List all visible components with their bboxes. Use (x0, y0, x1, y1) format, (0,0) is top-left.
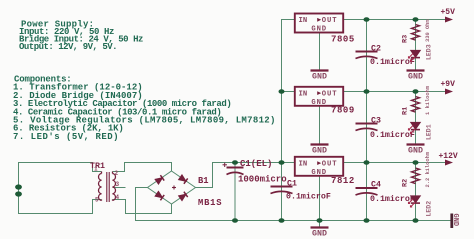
LED3 (409, 51, 421, 62)
capacitor C4 (356, 188, 378, 195)
wire input loop left vertical (18, 163, 20, 214)
wire 7809 output to +9V (343, 91, 445, 93)
junction C2 top (364, 17, 370, 22)
svg-text:LED3: LED3 (426, 44, 433, 60)
svg-text:C4: C4 (371, 181, 381, 190)
capacitor C1(EL) plus mark (223, 163, 228, 167)
wire input loop bottom (18, 200, 102, 214)
svg-text:GND: GND (311, 26, 327, 34)
junction bus LED2 (413, 218, 419, 223)
svg-text:1: 1 (94, 166, 98, 173)
junction bus 7812 gnd (317, 218, 323, 223)
svg-text:IN: IN (299, 17, 308, 25)
wire input loop top (18, 163, 102, 172)
svg-text:1 kiloohm: 1 kiloohm (425, 85, 431, 115)
capacitor C1 ceramic (271, 187, 293, 194)
ground symbol below 7805 (311, 71, 329, 82)
junction bus C1 (279, 218, 285, 223)
svg-text:R3: R3 (402, 35, 410, 43)
wire input rail vertical (282, 20, 295, 163)
svg-text:GND: GND (312, 230, 327, 239)
svg-text:2: 2 (115, 170, 119, 177)
svg-text:C2: C2 (371, 45, 381, 54)
wire transformer pin2 to bridge AC top (113, 163, 172, 172)
junction C4 top (364, 160, 370, 165)
junction bus C4 (364, 218, 370, 223)
svg-text:C3: C3 (371, 117, 381, 126)
junction input rail 7809 branch (279, 89, 285, 94)
svg-text:OUT: OUT (322, 160, 338, 168)
junction R2 top (413, 160, 419, 165)
output pin +12V (445, 160, 453, 166)
svg-text:GND: GND (312, 73, 327, 82)
svg-text:OUT: OUT (322, 90, 338, 98)
svg-text:7805: 7805 (331, 35, 355, 45)
bridge plus mark (172, 186, 176, 190)
ground symbol below LED1 (407, 145, 425, 156)
wire ground bus (135, 220, 451, 222)
capacitor C1(EL) electrolytic (227, 168, 244, 175)
resistor R2 (412, 168, 420, 184)
wire C1 ceramic lead (281, 163, 283, 221)
wire led column row3 (415, 163, 417, 221)
bridge diode bottom-left (155, 191, 164, 200)
components list text block (13, 75, 276, 142)
wire bridge plus to regulator input rail (195, 163, 295, 188)
svg-text:Output: 12V, 9V, 5V.: Output: 12V, 9V, 5V. (19, 42, 117, 52)
wire C1(EL) lead (234, 163, 236, 221)
wire input rail branch to 7809 (282, 91, 295, 93)
ground symbol below LED3 (407, 71, 425, 82)
junction input rail / C1 (279, 160, 285, 165)
ground symbol below 7809 (311, 145, 329, 156)
wire 7809 gnd pin (319, 106, 321, 145)
bridge diode bottom-right (178, 192, 187, 201)
svg-text:3: 3 (116, 181, 120, 188)
diode bridge B1 outline (148, 171, 196, 204)
wire 7812 output to +12V (343, 162, 445, 164)
svg-text:2.2 kiloohm: 2.2 kiloohm (425, 151, 431, 187)
bridge diode top-right (178, 175, 187, 184)
svg-text:IN: IN (299, 90, 308, 98)
svg-text:4: 4 (116, 194, 120, 201)
svg-text:OUT: OUT (322, 17, 338, 25)
svg-text:GND: GND (408, 147, 423, 156)
svg-text:+5V: +5V (441, 8, 456, 17)
svg-text:GND: GND (312, 147, 327, 156)
svg-text:0.1microF: 0.1microF (370, 130, 415, 140)
wire bridge minus to ground bus (136, 188, 149, 221)
wire led column row2 (415, 92, 417, 145)
svg-text:5: 5 (95, 197, 99, 204)
svg-text:0.1microF: 0.1microF (286, 192, 331, 202)
junction C1EL top (232, 160, 238, 165)
junction C3 top (364, 89, 370, 94)
junction R3 top (413, 17, 419, 22)
svg-text:7812: 7812 (331, 176, 355, 186)
svg-text:+12V: +12V (439, 152, 458, 161)
svg-text:C1: C1 (287, 180, 297, 189)
transformer TR1 (99, 172, 116, 203)
output pin +9V (445, 89, 453, 95)
ground symbol below ground bus (311, 228, 329, 239)
wire 7812 gnd pin to bus (319, 176, 321, 227)
svg-text:1000micro: 1000micro (238, 175, 287, 185)
svg-text:+9V: +9V (441, 80, 456, 89)
svg-text:LED1: LED1 (426, 124, 433, 140)
svg-text:R2: R2 (402, 179, 410, 187)
svg-text:R1: R1 (402, 107, 410, 115)
svg-text:MB1S: MB1S (198, 198, 222, 208)
svg-text:GND: GND (451, 214, 459, 227)
svg-text:C1(EL): C1(EL) (240, 159, 272, 169)
wire led column row1 (415, 20, 417, 71)
svg-text:GND: GND (311, 99, 327, 107)
capacitor C2 (356, 52, 378, 59)
resistor R3 (412, 25, 420, 41)
resistor R1 (412, 97, 420, 113)
node input terminal bottom (15, 191, 22, 196)
svg-text:GND: GND (311, 169, 327, 177)
wire transformer pin3 stub (113, 187, 126, 189)
svg-text:7. LED's (5V, RED): 7. LED's (5V, RED) (13, 132, 119, 142)
bridge diode top-left (155, 175, 164, 184)
voltage regulator U2 7809 (295, 87, 343, 106)
svg-text:LED2: LED2 (426, 201, 433, 217)
svg-text:330 Ohm: 330 Ohm (425, 19, 431, 42)
voltage regulator U3 7812 (295, 157, 343, 176)
LED1 (409, 123, 421, 134)
ground pin at bus right end (450, 214, 453, 229)
title text block: power supply specs (19, 20, 143, 53)
wire bypass cap column (366, 20, 368, 221)
svg-text:GND: GND (408, 73, 423, 82)
wire transformer pin4 to bridge AC bottom (113, 200, 172, 214)
capacitor C3 (356, 124, 378, 131)
wire 7805 gnd pin (319, 33, 321, 71)
node input terminal top (15, 184, 22, 189)
junction R1 top (413, 89, 419, 94)
LED2 (409, 196, 421, 207)
voltage regulator U1 7805 (295, 14, 343, 33)
output pin +5V (445, 17, 453, 23)
junction bus C1EL (232, 218, 238, 223)
svg-text:7809: 7809 (331, 106, 355, 116)
svg-text:B1: B1 (198, 176, 209, 186)
wire 7805 output to +5V (343, 19, 445, 21)
svg-text:IN: IN (299, 160, 308, 168)
